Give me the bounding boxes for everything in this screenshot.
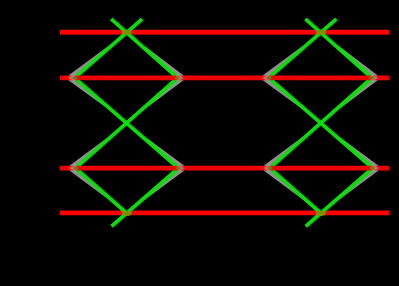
gray tip overlay at right chain upper-right vertex	[371, 73, 378, 82]
olive blend dot at right chain upper-left vertex	[267, 76, 271, 79]
olive blend dot at right chain upper-right vertex	[369, 76, 373, 79]
gray perturbed-ray wedge at left chain lower-left vertex	[69, 138, 109, 198]
olive blend blob at right top crossing	[316, 30, 326, 35]
gray tip overlay at right chain upper-left vertex	[262, 73, 269, 82]
olive blend blob at right bottom crossing	[316, 211, 326, 216]
gray perturbed-ray wedge at right chain lower-left vertex	[263, 138, 303, 198]
gray perturbed-ray wedge at left chain upper-right vertex	[144, 48, 184, 108]
mirror line M4 (bottom red)	[60, 210, 389, 215]
olive blend blob at left bottom crossing	[122, 211, 132, 216]
left chain: green ray A	[75, 19, 179, 226]
left chain: green ray B	[76, 19, 178, 213]
gray perturbed-ray wedge at right chain lower-right vertex	[339, 138, 379, 198]
gray tip overlay at left chain lower-right vertex	[177, 164, 184, 173]
gray perturbed-ray wedge at right chain upper-right vertex	[338, 48, 378, 108]
mirror line M3 (third red, over ray tips)	[60, 166, 389, 171]
gray tip overlay at left chain upper-right vertex	[177, 73, 184, 82]
gray tip overlay at right chain lower-left vertex	[263, 164, 270, 173]
olive blend blob at left top crossing	[122, 30, 132, 35]
gray tip overlay at left chain lower-left vertex	[69, 164, 76, 173]
olive blend dot at left chain lower-left vertex	[74, 167, 78, 170]
right chain: green ray A	[269, 19, 373, 226]
gray tip overlay at left chain upper-left vertex	[68, 73, 75, 82]
gray tip overlay at right chain lower-right vertex	[372, 164, 379, 173]
olive blend dot at right chain lower-left vertex	[268, 167, 272, 170]
gray perturbed-ray wedge at right chain upper-left vertex	[262, 48, 303, 108]
mirror line M1 (top red)	[60, 30, 389, 35]
right chain: green ray B	[270, 19, 372, 213]
gray perturbed-ray wedge at left chain lower-right vertex	[144, 138, 184, 198]
olive blend dot at right chain lower-right vertex	[370, 167, 374, 170]
mirror line M2 (second red, over ray tips)	[60, 76, 389, 81]
olive blend dot at left chain upper-right vertex	[175, 76, 179, 79]
olive blend dot at left chain upper-left vertex	[73, 76, 77, 79]
gray perturbed-ray wedge at left chain upper-left vertex	[68, 48, 109, 108]
olive blend dot at left chain lower-right vertex	[176, 167, 180, 170]
